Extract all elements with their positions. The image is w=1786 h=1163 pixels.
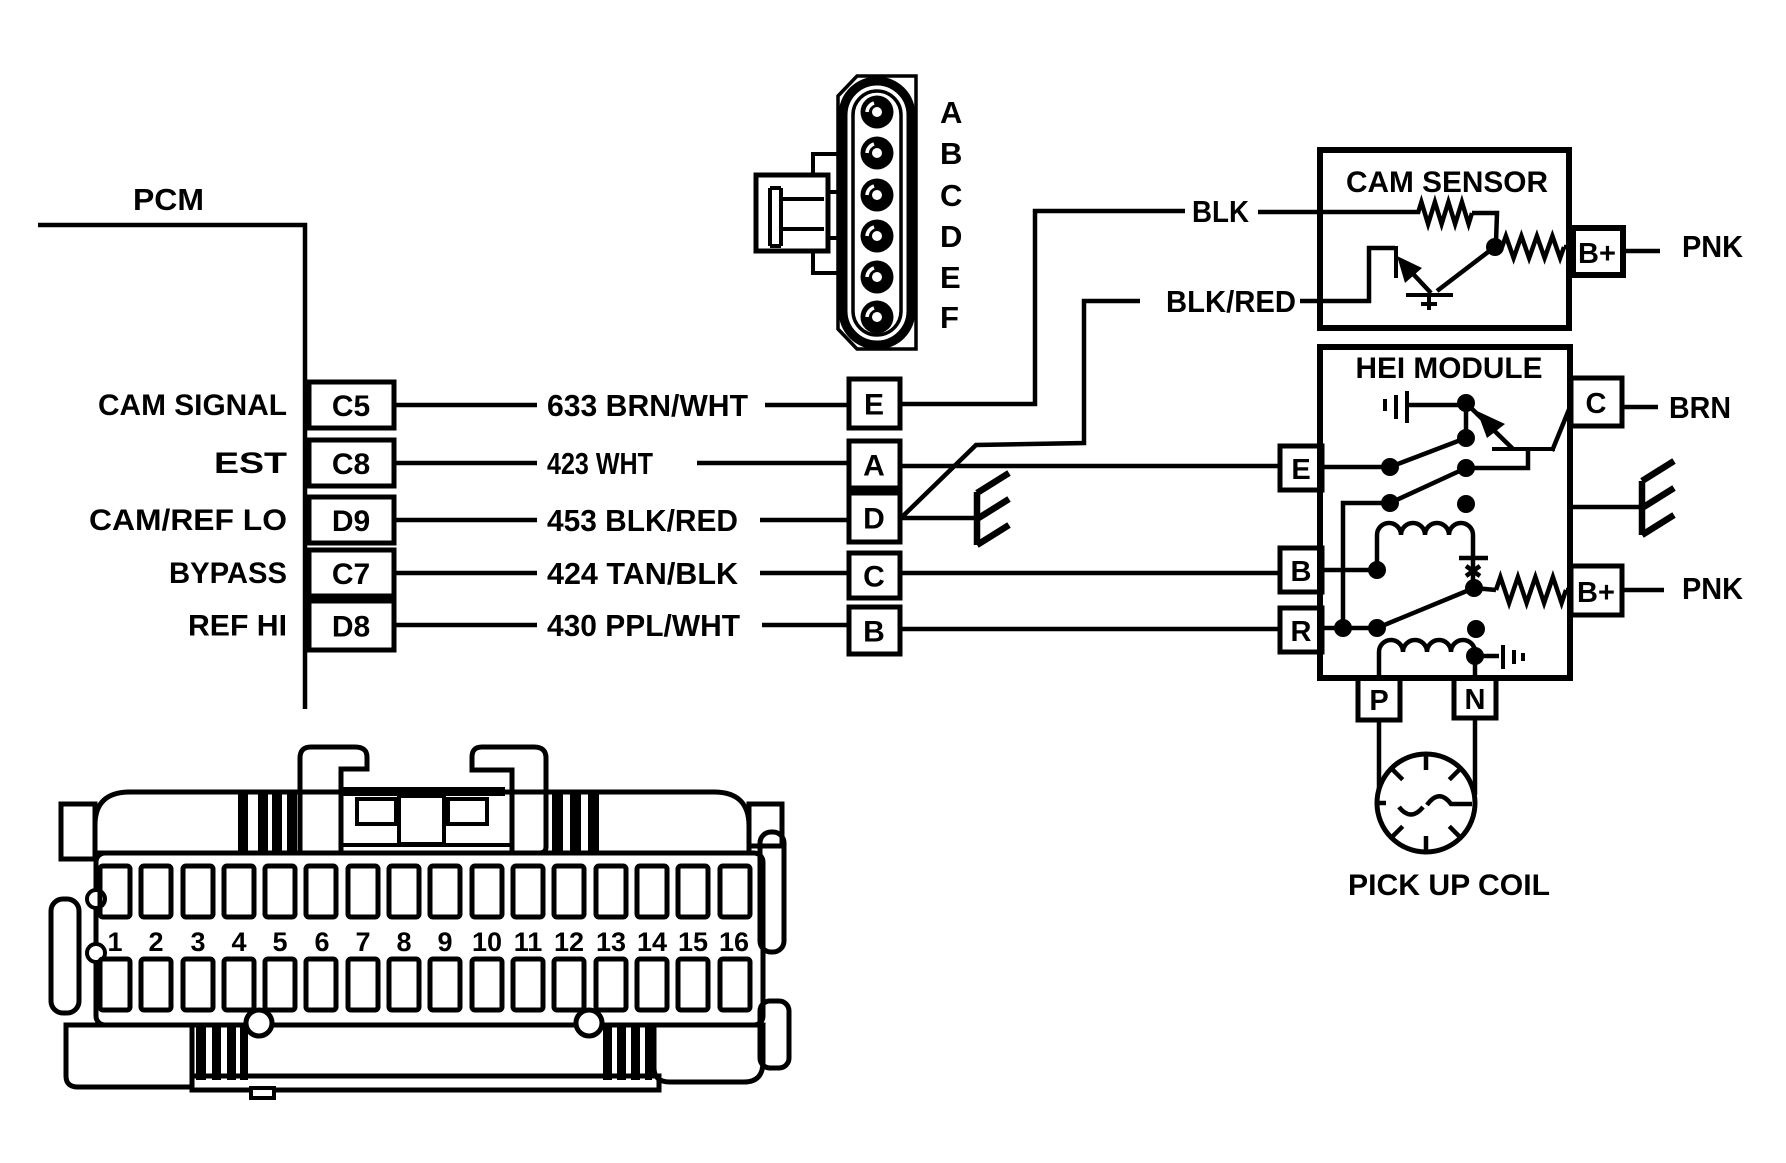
pin 8 bottom — [389, 959, 419, 1010]
terminal B HEI — [1280, 548, 1322, 592]
svg-text:C: C — [1586, 388, 1607, 420]
terminal C HEI — [1571, 378, 1622, 426]
top shell — [95, 792, 749, 853]
wire A to HEI E — [900, 464, 1280, 469]
svg-text:E: E — [940, 260, 961, 295]
connector J1 pin C — [861, 179, 894, 212]
pick up coil — [1377, 754, 1475, 852]
svg-text:453 BLK/RED: 453 BLK/RED — [547, 503, 738, 538]
shell window details — [341, 787, 505, 796]
node junction — [1457, 394, 1475, 412]
node CAM SIGNAL pin C5 — [309, 382, 394, 428]
wire PNK — [1623, 249, 1660, 254]
pin 15 bottom — [678, 959, 708, 1010]
pin 12 bottom — [554, 959, 584, 1010]
svg-text:C: C — [940, 178, 962, 213]
pin 2 bottom — [141, 959, 171, 1010]
wire BRN — [1622, 405, 1658, 410]
node connector pin C — [849, 553, 900, 598]
wire PNK HEI — [1622, 588, 1664, 593]
pin 9 bottom — [430, 959, 460, 1010]
transistor Q2 HEI — [1492, 447, 1555, 451]
svg-text:D8: D8 — [332, 611, 370, 644]
terminal B+ HEI — [1571, 566, 1622, 615]
node CAM/REF LO pin D9 — [309, 497, 394, 543]
svg-text:4: 4 — [231, 927, 246, 957]
svg-text:CAM/REF LO: CAM/REF LO — [89, 504, 287, 537]
svg-text:B: B — [1291, 556, 1312, 588]
svg-text:11: 11 — [514, 927, 543, 957]
body side bumps — [51, 899, 79, 1013]
pin 7 top — [348, 866, 378, 917]
wire B row — [1322, 568, 1377, 573]
node connector pin D — [849, 493, 900, 542]
node connector pin B — [849, 607, 900, 654]
svg-text:B+: B+ — [1578, 238, 1616, 270]
svg-text:E: E — [864, 389, 884, 422]
svg-text:1: 1 — [107, 927, 122, 957]
svg-text:BLK/RED: BLK/RED — [1166, 284, 1296, 319]
wire HEI to ground — [1570, 505, 1645, 510]
svg-text:D: D — [863, 503, 885, 536]
bottom keys — [246, 1010, 272, 1036]
wire 423 WHT — [394, 461, 537, 466]
pin 12 top — [554, 866, 584, 917]
svg-text:10: 10 — [472, 927, 502, 957]
svg-text:D9: D9 — [332, 505, 370, 538]
pin 2 top — [141, 866, 171, 917]
ground internal — [1459, 535, 1488, 585]
resistor R2 — [1502, 236, 1564, 258]
terminal E HEI — [1280, 446, 1322, 490]
svg-text:B: B — [863, 616, 885, 649]
svg-text:PCM: PCM — [133, 182, 204, 217]
svg-text:CAM SENSOR: CAM SENSOR — [1346, 166, 1548, 199]
svg-text:633 BRN/WHT: 633 BRN/WHT — [547, 388, 748, 423]
capacitor C1 HEI — [1385, 391, 1407, 423]
svg-text:9: 9 — [437, 927, 452, 957]
svg-text:BYPASS: BYPASS — [169, 557, 287, 590]
svg-text:REF HI: REF HI — [188, 610, 287, 643]
pin 6 bottom — [306, 959, 336, 1010]
node REF HI pin D8 — [309, 601, 394, 650]
svg-text:CAM SIGNAL: CAM SIGNAL — [98, 389, 287, 422]
node junction — [1457, 459, 1475, 477]
wire PCM bus — [38, 225, 305, 709]
ground right of HEI — [1642, 461, 1674, 535]
svg-text:7: 7 — [355, 927, 370, 957]
node BYPASS pin C7 — [309, 550, 394, 596]
pin 9 top — [430, 866, 460, 917]
wire B to HEI R — [900, 627, 1280, 632]
svg-text:C7: C7 — [332, 558, 370, 591]
pin 3 bottom — [183, 959, 213, 1010]
svg-text:BRN: BRN — [1669, 390, 1731, 425]
wire C to HEI B — [900, 571, 1280, 576]
svg-text:C8: C8 — [332, 448, 370, 481]
node contact — [1467, 620, 1485, 638]
resistor R1 — [1418, 202, 1472, 224]
pin 11 top — [513, 866, 543, 917]
CAM SENSOR box — [1320, 150, 1569, 328]
svg-text:423 WHT: 423 WHT — [547, 446, 653, 481]
node connector pin E — [849, 379, 900, 428]
pin 13 top — [596, 866, 626, 917]
svg-text:R: R — [1291, 616, 1312, 648]
pin 16 bottom — [720, 959, 750, 1010]
pin 1 top — [100, 866, 130, 917]
wire D to ground — [900, 516, 978, 521]
svg-text:A: A — [863, 450, 885, 483]
pin 13 bottom — [596, 959, 626, 1010]
svg-text:C: C — [863, 561, 885, 594]
svg-text:14: 14 — [637, 927, 667, 957]
bottom shell — [66, 1025, 192, 1087]
pin 11 bottom — [513, 959, 543, 1010]
pin 16 top — [720, 866, 750, 917]
switch arm 1 — [1390, 438, 1466, 467]
svg-text:B+: B+ — [1577, 577, 1615, 609]
svg-text:B: B — [940, 136, 962, 171]
inductor L2 — [1379, 640, 1475, 652]
pin 15 top — [678, 866, 708, 917]
svg-text:C5: C5 — [332, 390, 370, 423]
wire BLK net — [900, 211, 1185, 404]
node junction — [1465, 579, 1483, 597]
terminal N HEI — [1454, 678, 1496, 718]
latch 1 — [300, 747, 367, 853]
pin 14 top — [637, 866, 667, 917]
wire P lead — [1377, 720, 1382, 795]
connector J1 pin F — [861, 301, 894, 334]
switch arm 3 — [1377, 588, 1474, 628]
pin 8 top — [389, 866, 419, 917]
pin 10 bottom — [472, 959, 502, 1010]
node junction — [1466, 647, 1484, 665]
svg-text:A: A — [940, 95, 962, 130]
HEI MODULE box — [1320, 347, 1570, 678]
svg-text:5: 5 — [272, 927, 287, 957]
wire to R row — [1343, 503, 1390, 628]
resistor R3 — [1474, 588, 1496, 590]
terminal B+ cam sensor — [1573, 228, 1623, 275]
wire BLK/RED net — [903, 301, 1140, 516]
svg-text:424 TAN/BLK: 424 TAN/BLK — [547, 556, 739, 591]
pin 10 top — [472, 866, 502, 917]
node contact — [1457, 495, 1475, 513]
latch 2 — [472, 747, 546, 853]
terminal P HEI — [1358, 678, 1400, 720]
svg-text:E: E — [1291, 454, 1310, 486]
svg-text:15: 15 — [678, 927, 708, 957]
svg-text:12: 12 — [554, 927, 584, 957]
terminal R HEI — [1280, 608, 1322, 652]
connector J1 pin A — [861, 96, 894, 129]
wire 633 BRN/WHT — [394, 403, 537, 408]
pin 5 top — [265, 866, 295, 917]
connector J1 6-pin shell — [838, 76, 916, 349]
pin 3 top — [183, 866, 213, 917]
wire 424 TAN/BLK — [394, 571, 537, 576]
svg-text:BLK: BLK — [1192, 194, 1250, 229]
connector J1 latch — [756, 175, 828, 251]
svg-text:PNK: PNK — [1682, 571, 1744, 606]
wire 430 PPL/WHT — [394, 623, 537, 628]
pin 14 bottom — [637, 959, 667, 1010]
connector J1 pin B — [861, 137, 894, 170]
pin 6 top — [306, 866, 336, 917]
pin 4 bottom — [224, 959, 254, 1010]
svg-text:16: 16 — [719, 927, 749, 957]
pin 7 bottom — [348, 959, 378, 1010]
svg-text:D: D — [940, 219, 962, 254]
svg-text:13: 13 — [596, 927, 626, 957]
svg-text:P: P — [1369, 685, 1388, 717]
svg-text:8: 8 — [396, 927, 411, 957]
svg-text:PICK UP COIL: PICK UP COIL — [1348, 869, 1550, 902]
svg-text:3: 3 — [190, 927, 205, 957]
node connector pin A — [849, 441, 900, 488]
capacitor C2 HEI — [1475, 654, 1499, 659]
connector J1 pin D — [861, 220, 894, 253]
connector J1 pin E — [861, 261, 894, 294]
node EST pin C8 — [309, 440, 394, 486]
node junction — [1457, 429, 1475, 447]
inductor L1 — [1377, 523, 1473, 535]
pin 4 top — [224, 866, 254, 917]
svg-text:F: F — [940, 300, 959, 335]
main body — [96, 853, 763, 1025]
wire R row — [1322, 626, 1377, 631]
svg-text:HEI MODULE: HEI MODULE — [1356, 352, 1543, 385]
wire N lead — [1473, 718, 1478, 795]
svg-text:N: N — [1465, 684, 1486, 716]
pin 5 bottom — [265, 959, 295, 1010]
wire E row — [1322, 465, 1390, 470]
ground near pin D — [977, 473, 1009, 545]
svg-text:2: 2 — [148, 927, 163, 957]
pin 1 bottom — [100, 959, 130, 1010]
svg-text:430 PPL/WHT: 430 PPL/WHT — [547, 608, 740, 643]
transistor Q1 — [1394, 246, 1398, 278]
svg-text:EST: EST — [214, 447, 287, 480]
wire 453 BLK/RED — [394, 518, 537, 523]
node junction — [1486, 238, 1504, 256]
svg-text:PNK: PNK — [1682, 229, 1744, 264]
svg-text:6: 6 — [314, 927, 329, 957]
switch arm 2 — [1390, 468, 1466, 503]
